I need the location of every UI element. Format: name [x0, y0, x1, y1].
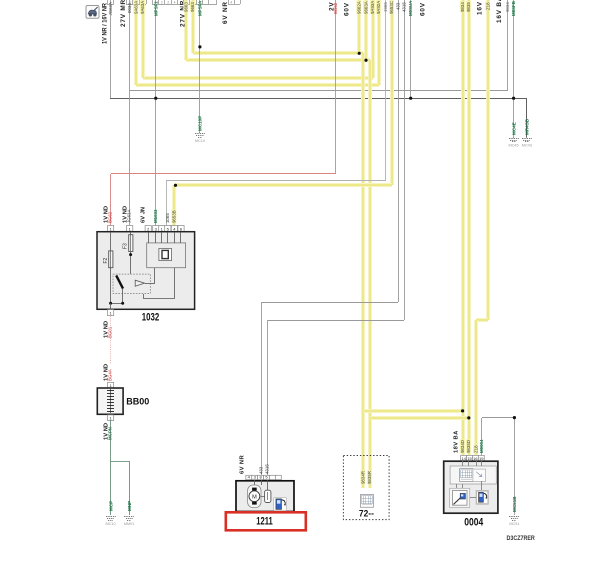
svg-text:1211: 1211: [256, 516, 273, 528]
svg-text:M1033: M1033: [153, 209, 158, 223]
svg-text:9662A: 9662A: [357, 1, 362, 14]
svg-text:9835: 9835: [466, 2, 471, 12]
svg-text:MC51B: MC51B: [512, 496, 517, 512]
svg-text:M0SUA: M0SUA: [408, 0, 413, 16]
svg-text:MNP: MNP: [127, 501, 132, 511]
svg-text:27V MR: 27V MR: [120, 0, 127, 27]
svg-text:9653B: 9653B: [172, 210, 177, 223]
svg-text:9835R: 9835R: [367, 471, 372, 484]
svg-text:4315: 4315: [265, 464, 270, 474]
svg-text:9A93A: 9A93A: [370, 1, 375, 14]
svg-text:2: 2: [161, 1, 163, 5]
svg-text:6V NR: 6V NR: [222, 1, 229, 24]
svg-text:F3: F3: [123, 243, 129, 249]
svg-text:9834R: 9834R: [361, 471, 366, 484]
svg-text:433: 433: [396, 2, 401, 10]
svg-text:433: 433: [259, 466, 264, 474]
svg-text:2: 2: [167, 1, 169, 5]
svg-text:1065: 1065: [165, 213, 170, 223]
svg-text:9663: 9663: [184, 2, 189, 12]
svg-text:MC10: MC10: [106, 522, 116, 526]
svg-text:18V BA: 18V BA: [454, 430, 460, 453]
svg-text:JG63A: JG63A: [108, 2, 113, 15]
svg-text:9834D: 9834D: [460, 440, 465, 453]
svg-text:Z18: Z18: [473, 445, 478, 453]
svg-text:1965: 1965: [383, 2, 388, 12]
svg-text:MCP: MCP: [108, 501, 113, 511]
svg-text:MPSFA: MPSFA: [197, 0, 202, 16]
svg-text:9834: 9834: [505, 2, 510, 12]
svg-text:9A63A: 9A63A: [140, 1, 145, 14]
svg-text:0034: 0034: [127, 3, 132, 13]
svg-text:JG63A: JG63A: [127, 210, 132, 223]
svg-text:M0004: M0004: [479, 439, 484, 453]
svg-text:72--: 72--: [359, 508, 374, 518]
svg-text:BB00: BB00: [126, 397, 149, 407]
svg-text:Z18: Z18: [485, 2, 490, 10]
svg-text:MC10: MC10: [195, 139, 205, 143]
svg-text:16V BA: 16V BA: [496, 0, 503, 23]
svg-text:4: 4: [174, 1, 176, 5]
svg-text:MC4E: MC4E: [511, 122, 516, 135]
svg-text:MC10P: MC10P: [198, 116, 203, 131]
svg-text:M8SFB: M8SFB: [511, 1, 516, 16]
svg-text:9653C: 9653C: [389, 1, 394, 14]
svg-text:1032: 1032: [142, 312, 160, 324]
svg-text:60V: 60V: [419, 2, 426, 16]
svg-text:MC51: MC51: [509, 522, 519, 526]
svg-text:MPSF1: MPSF1: [153, 1, 158, 16]
svg-text:9663: 9663: [190, 2, 195, 12]
svg-text:9A63A: 9A63A: [134, 1, 139, 14]
svg-text:9835D: 9835D: [466, 440, 471, 453]
svg-text:MR4SB: MR4SB: [525, 118, 530, 135]
svg-text:BG4A: BG4A: [108, 369, 113, 381]
svg-text:9A92A: 9A92A: [376, 1, 381, 14]
svg-text:9663A: 9663A: [363, 1, 368, 14]
svg-text:9834: 9834: [460, 2, 465, 12]
svg-text:MC45: MC45: [509, 144, 519, 148]
svg-text:4: 4: [230, 1, 232, 5]
svg-text:6V JN: 6V JN: [141, 207, 147, 223]
svg-text:MM01: MM01: [124, 522, 135, 526]
svg-text:16V: 16V: [477, 1, 484, 15]
svg-text:BG62: BG62: [108, 211, 113, 223]
svg-text:MC43: MC43: [522, 144, 532, 148]
svg-text:F2: F2: [103, 257, 109, 263]
svg-text:BG62: BG62: [333, 2, 338, 14]
svg-text:D3CZ7RER: D3CZ7RER: [507, 535, 536, 542]
svg-text:M: M: [252, 494, 257, 500]
svg-text:4315: 4315: [402, 2, 407, 12]
svg-text:6V NR: 6V NR: [240, 455, 246, 474]
svg-text:0004: 0004: [464, 517, 484, 529]
svg-text:60V: 60V: [344, 2, 351, 16]
